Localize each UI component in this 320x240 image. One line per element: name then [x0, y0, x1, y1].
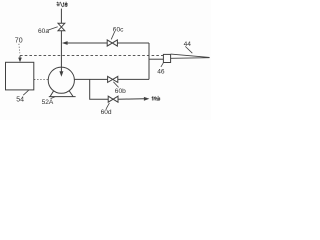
discharge label 排出	[152, 96, 160, 101]
wire: header to nozzle body 46	[149, 58, 163, 60]
leader line for label 44	[185, 46, 192, 53]
svg-text:52A: 52A	[42, 99, 54, 106]
nozzle body 46	[163, 54, 170, 62]
arrow on gas branch pointing left into vertical line	[62, 41, 68, 45]
wire: drain branch down	[90, 79, 108, 99]
svg-text:60b: 60b	[115, 88, 126, 95]
leader line for label 60a	[48, 27, 58, 31]
arrow into pump 52A inlet	[59, 71, 63, 77]
dotted leader for label 70	[18, 44, 21, 53]
valve 60d	[108, 96, 118, 102]
valve 60a	[58, 23, 65, 30]
svg-text:60a: 60a	[38, 28, 49, 35]
leader line for label 54	[23, 90, 29, 95]
leader line for label 60d	[106, 103, 109, 109]
svg-text:54: 54	[16, 96, 24, 103]
valve 60c	[107, 40, 117, 46]
leader line for label 60c	[111, 32, 114, 40]
wire: valve 60b to header corner	[118, 78, 149, 80]
tank 54	[6, 62, 34, 90]
arrow discharge pointing right	[144, 97, 150, 101]
svg-text:60d: 60d	[101, 109, 112, 116]
leader line for label 52A	[51, 97, 56, 99]
lance 44	[171, 54, 210, 58]
arrow from dashed line 70 down into tank 54	[19, 56, 21, 58]
gas inlet label 气体	[57, 2, 68, 7]
svg-text:44: 44	[184, 41, 192, 48]
leader line for label 60b	[113, 82, 118, 88]
dashed control/recirculation line 70	[20, 55, 163, 57]
valve 60b	[108, 76, 118, 82]
wire: gas line from valve 60a down to pump inlet	[60, 31, 62, 72]
leader line for label 46	[161, 63, 164, 67]
wire: right vertical header	[148, 43, 150, 79]
dotted line between tank 54 and pump 52A	[34, 78, 48, 80]
wire: gas inlet vertical drop	[60, 9, 62, 24]
svg-text:60c: 60c	[113, 27, 124, 34]
pump 52A circle	[48, 67, 74, 93]
wire: valve 60d to discharge arrow	[118, 98, 144, 100]
wire: pump outlet to valve 60b	[74, 78, 107, 80]
svg-text:46: 46	[157, 68, 165, 75]
svg-text:70: 70	[15, 38, 23, 45]
wire: gas branch horizontal to header	[67, 42, 149, 44]
pump 52A base mount	[49, 91, 76, 97]
